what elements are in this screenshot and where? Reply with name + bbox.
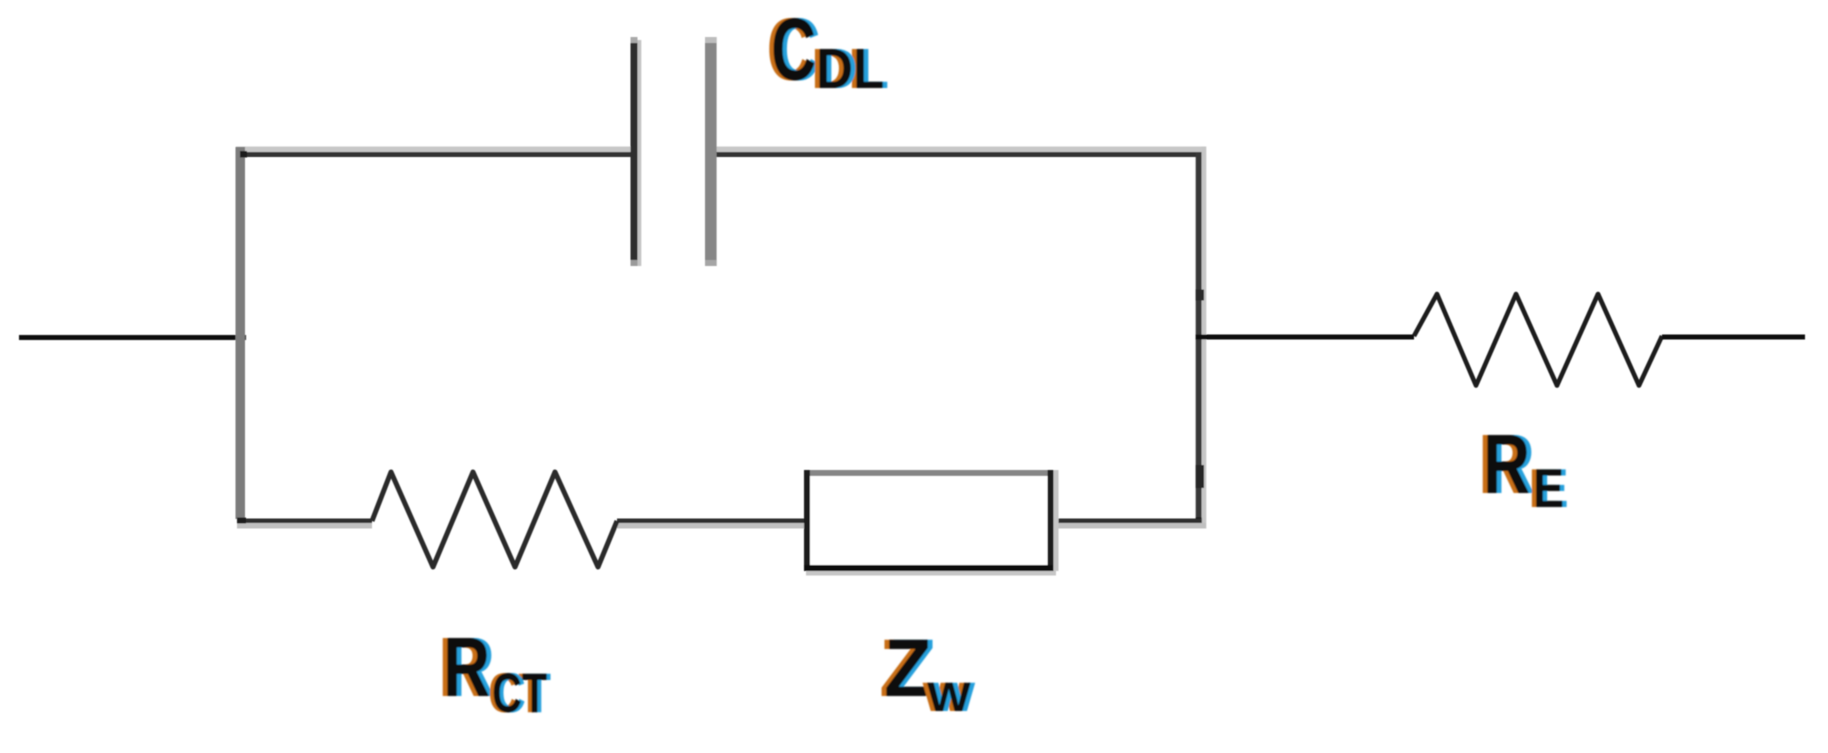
- svg-text:E: E: [1533, 457, 1564, 518]
- svg-text:C: C: [771, 1, 816, 99]
- svg-text:CT: CT: [492, 662, 547, 725]
- svg-text:W: W: [927, 674, 971, 720]
- svg-text:R: R: [1483, 417, 1530, 511]
- svg-text:DL: DL: [816, 38, 884, 101]
- svg-text:R: R: [443, 620, 490, 714]
